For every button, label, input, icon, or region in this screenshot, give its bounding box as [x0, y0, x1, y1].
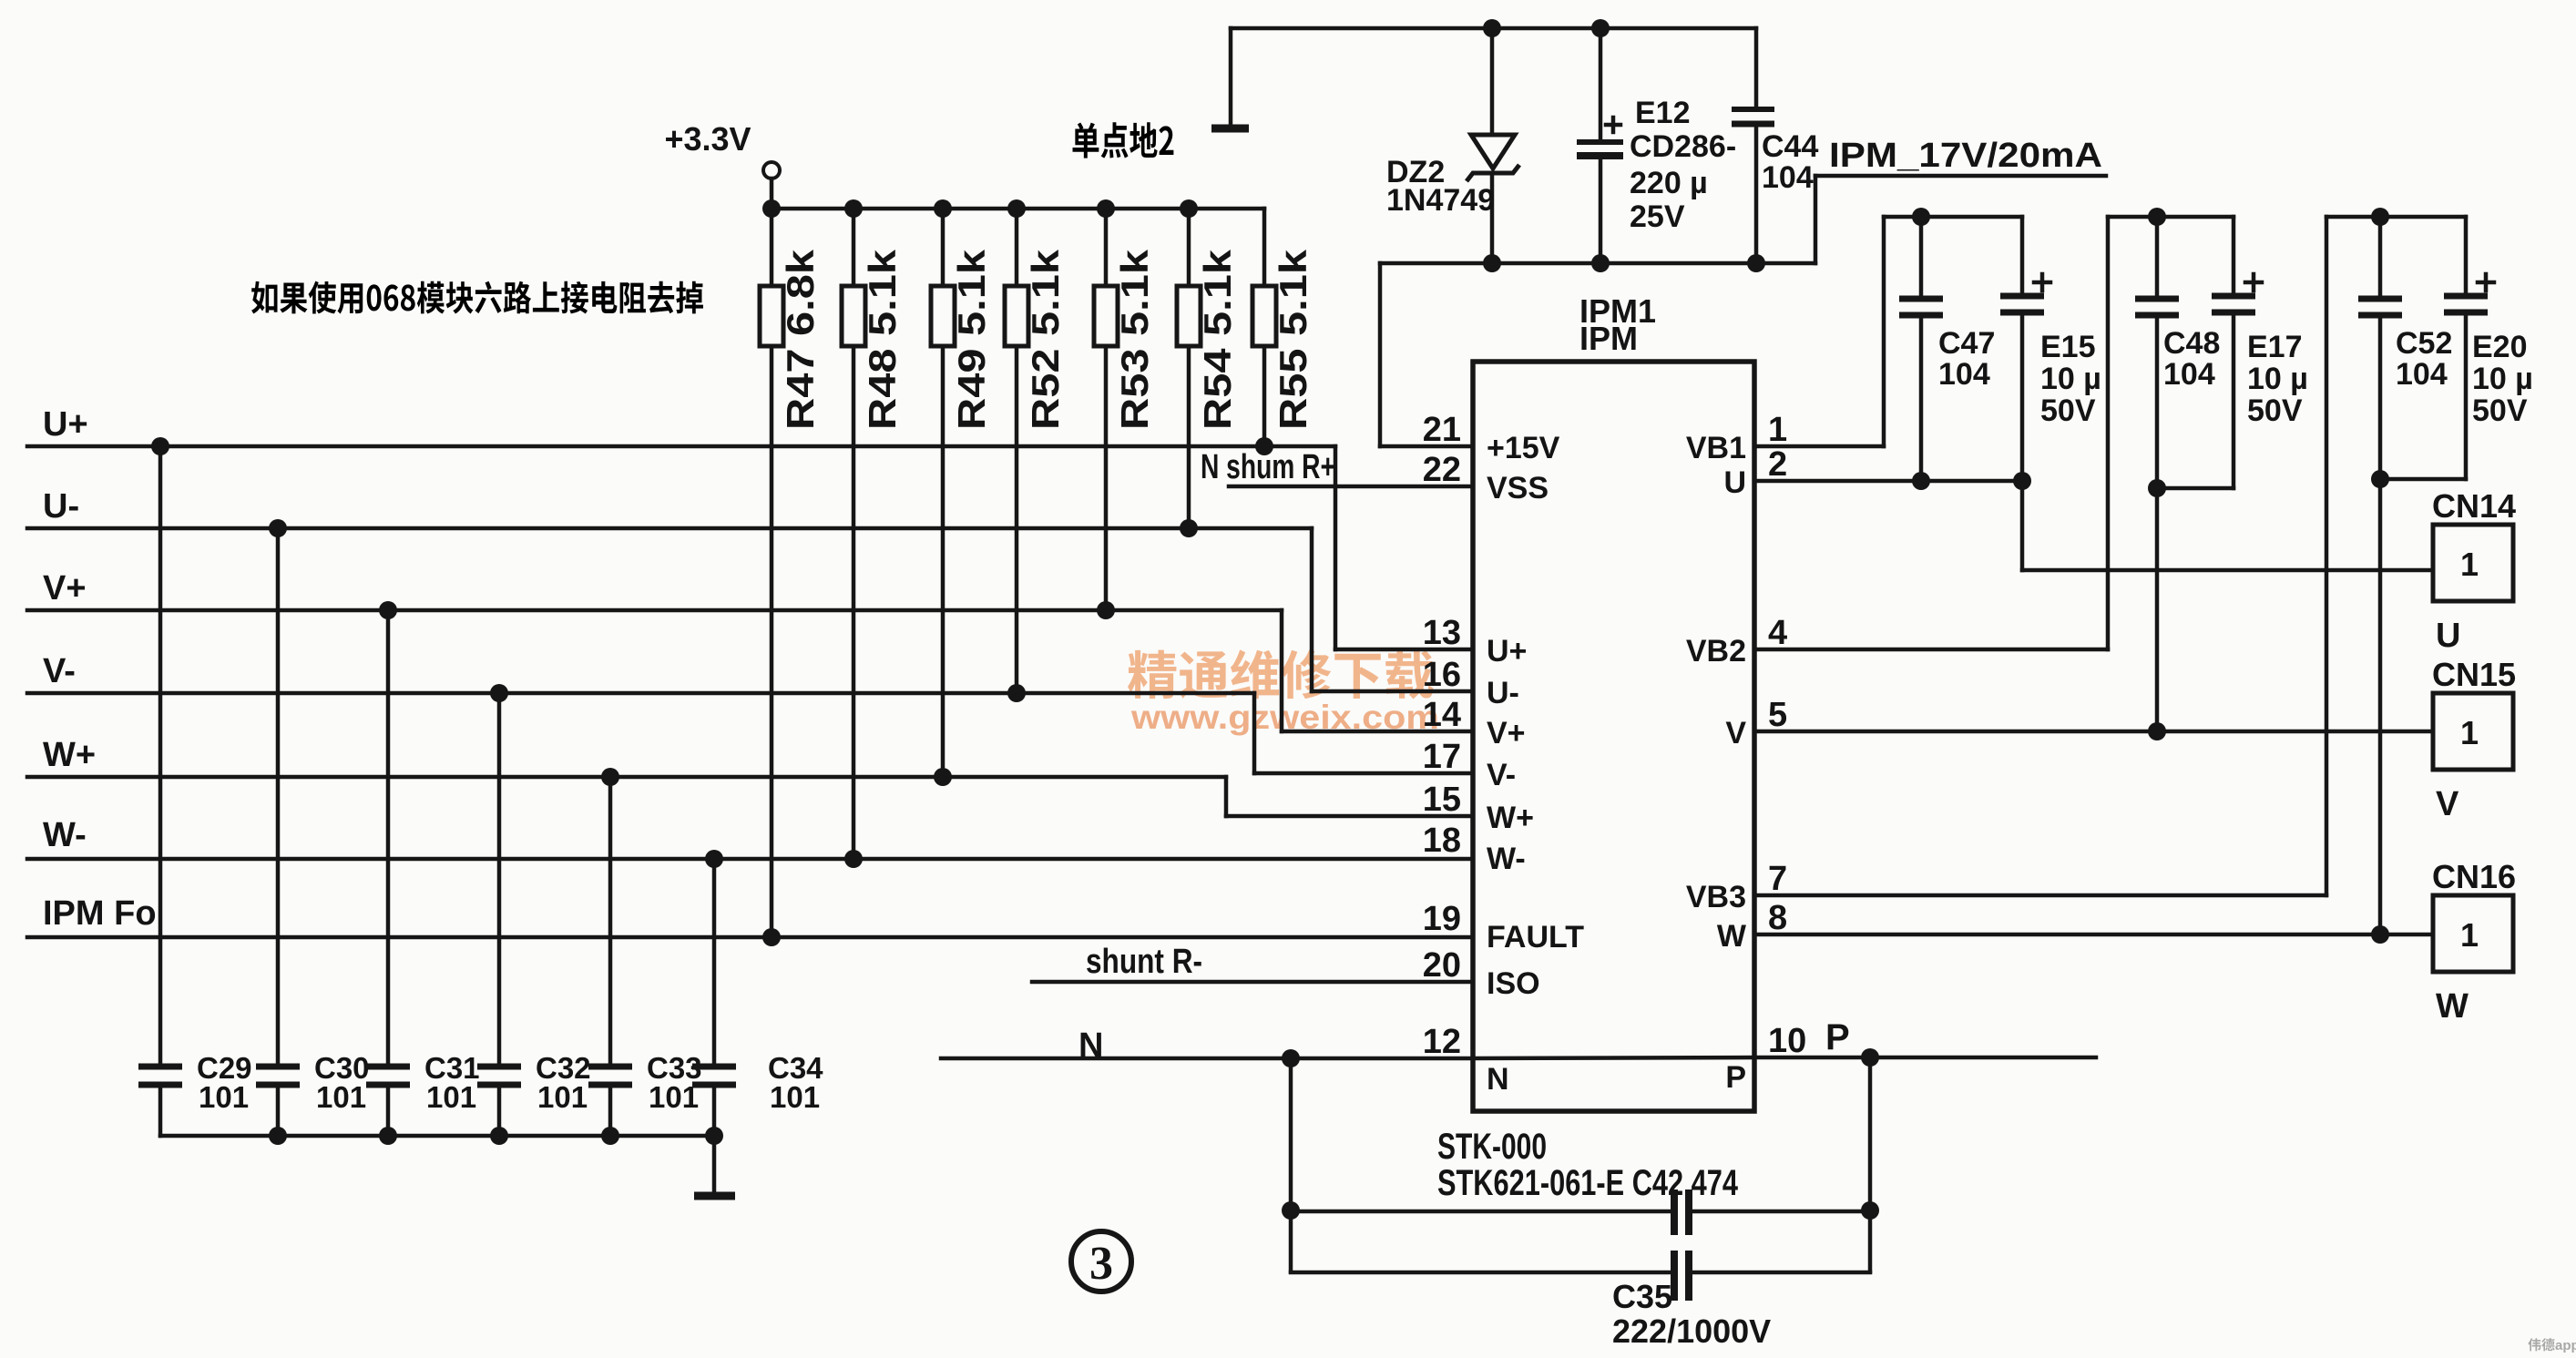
capacitor E12 CD286-220u 25V — [1577, 19, 1736, 272]
svg-text:+15V: +15V — [1487, 431, 1560, 465]
svg-text:IPM_17V/20mA: IPM_17V/20mA — [1829, 137, 2102, 175]
pin 15 W+ — [1423, 781, 1534, 835]
resistor R49 5.1k — [931, 199, 993, 786]
svg-text:U+: U+ — [1487, 634, 1527, 669]
pin 4 VB2 — [1686, 614, 1787, 669]
svg-text:CN15: CN15 — [2432, 656, 2516, 693]
svg-text:25V: 25V — [1630, 199, 1685, 234]
svg-text:CD286-: CD286- — [1630, 129, 1736, 164]
svg-text:W+: W+ — [1487, 801, 1534, 835]
wire V- signal line — [27, 693, 1473, 773]
svg-text:VB2: VB2 — [1686, 634, 1746, 669]
svg-text:P: P — [1725, 1060, 1746, 1095]
wire top rail — [1231, 26, 1756, 31]
pin 20 ISO — [1423, 946, 1540, 1001]
capacitor E20 10u 50V — [2444, 217, 2533, 479]
pin 17 V- — [1423, 738, 1516, 792]
svg-text:W-: W- — [1487, 842, 1526, 876]
svg-text:222/1000V: 222/1000V — [1612, 1312, 1771, 1350]
svg-text:CN14: CN14 — [2432, 487, 2516, 525]
svg-text:U-: U- — [43, 487, 79, 526]
svg-text:1: 1 — [2460, 714, 2479, 751]
pin 19 FAULT — [1423, 900, 1585, 955]
svg-text:101: 101 — [316, 1080, 366, 1114]
svg-text:13: 13 — [1423, 614, 1461, 652]
svg-text:E17: E17 — [2247, 330, 2303, 364]
connector CN14 (U) — [2432, 487, 2516, 655]
wire +15V feed to pin 21 — [1380, 263, 1473, 446]
svg-text:8: 8 — [1768, 899, 1787, 937]
svg-text:104: 104 — [2396, 357, 2448, 392]
svg-text:C44: C44 — [1762, 129, 1818, 164]
wire C34 ground stem — [712, 1136, 717, 1194]
resistor R54 5.1k — [1177, 199, 1239, 537]
resistor R55 5.1k — [1252, 209, 1314, 455]
svg-text:101: 101 — [199, 1080, 249, 1114]
wire U- signal line — [27, 528, 1473, 691]
svg-text:IPM Fo: IPM Fo — [43, 894, 157, 933]
pin 13 U+ — [1423, 614, 1528, 669]
svg-text:50V: 50V — [2040, 393, 2096, 428]
wire V pin5 to CN15 — [1754, 730, 2433, 734]
svg-text:104: 104 — [2163, 357, 2215, 392]
svg-text:V+: V+ — [43, 569, 87, 608]
svg-text:V-: V- — [1487, 758, 1516, 792]
svg-text:101: 101 — [426, 1080, 476, 1114]
svg-text:R48 5.1k: R48 5.1k — [861, 249, 904, 430]
pin 18 W- — [1423, 822, 1526, 876]
svg-text:E12: E12 — [1635, 96, 1691, 130]
op-amp/IC IPM1 STK621-061-E body — [1473, 362, 1754, 1111]
svg-text:17: 17 — [1423, 738, 1461, 776]
svg-text:shunt R-: shunt R- — [1086, 943, 1202, 981]
capacitor C29 — [138, 437, 252, 1136]
svg-text:20: 20 — [1423, 946, 1461, 985]
svg-text:E20: E20 — [2472, 330, 2528, 364]
wire W- signal line — [27, 857, 1473, 862]
wire C42/C35 right branch — [1868, 1057, 1873, 1271]
capacitor C31 — [366, 601, 480, 1136]
resistor R47 6.8k — [760, 199, 822, 946]
svg-text:R47 6.8k: R47 6.8k — [779, 249, 822, 430]
svg-text:FAULT: FAULT — [1487, 920, 1584, 955]
wire W+ signal line — [27, 777, 1473, 816]
capacitor C47 104 — [1899, 217, 1995, 481]
pin 8 W — [1717, 899, 1787, 954]
svg-text:14: 14 — [1423, 696, 1461, 734]
capacitor C52 104 — [2358, 217, 2452, 934]
svg-text:app: app — [2555, 1338, 2576, 1353]
svg-text:R52 5.1k: R52 5.1k — [1024, 249, 1067, 430]
svg-text:22: 22 — [1423, 451, 1461, 489]
svg-text:10 µ: 10 µ — [2472, 362, 2533, 396]
svg-text:16: 16 — [1423, 656, 1461, 694]
pin 14 V+ — [1423, 696, 1526, 750]
pin 21 +15V — [1423, 411, 1560, 465]
svg-text:C52: C52 — [2396, 326, 2452, 361]
svg-text:W+: W+ — [43, 736, 96, 774]
wire N line to pin 12 — [941, 1057, 1473, 1061]
wire N-P interior line — [1473, 1057, 1754, 1058]
svg-text:10 µ: 10 µ — [2247, 362, 2308, 396]
svg-text:18: 18 — [1423, 822, 1461, 860]
capacitor C34 — [692, 850, 823, 1136]
svg-text:W: W — [1717, 919, 1747, 954]
svg-text:C47: C47 — [1938, 326, 1995, 361]
pin 5 V — [1725, 696, 1787, 750]
svg-text:U: U — [2436, 617, 2460, 655]
wire bootstrap rail 2 — [2108, 215, 2234, 220]
svg-text:5: 5 — [1768, 696, 1787, 734]
footer small text — [2528, 1338, 2554, 1351]
svg-text:N: N — [1487, 1062, 1509, 1097]
svg-text:R55 5.1k: R55 5.1k — [1272, 249, 1314, 430]
svg-text:R49 5.1k: R49 5.1k — [950, 249, 993, 430]
note chinese annotation — [251, 281, 703, 314]
resistor R53 5.1k — [1094, 199, 1156, 619]
ground symbol bottom — [694, 1192, 735, 1200]
ground symbol top (single point ground 2) — [1211, 28, 1249, 128]
svg-text:10: 10 — [1768, 1022, 1806, 1060]
svg-text:C48: C48 — [2163, 326, 2220, 361]
svg-text:CN16: CN16 — [2432, 858, 2516, 895]
svg-text:U: U — [1723, 465, 1746, 500]
svg-text:STK621-061-E C42 474: STK621-061-E C42 474 — [1437, 1163, 1739, 1203]
capacitor C44 104 — [1732, 28, 1818, 272]
pin 2 U — [1723, 445, 1787, 500]
watermark text — [1128, 649, 1439, 736]
capacitor C32 — [477, 684, 591, 1136]
connector CN16 (W) — [2432, 858, 2516, 1026]
svg-text:C35: C35 — [1612, 1278, 1672, 1315]
svg-text:V+: V+ — [1487, 716, 1526, 750]
svg-text:R54 5.1k: R54 5.1k — [1196, 249, 1239, 430]
svg-text:2: 2 — [1768, 445, 1787, 484]
svg-text:1: 1 — [2460, 546, 2479, 583]
svg-text:IPM: IPM — [1579, 320, 1638, 357]
svg-text:101: 101 — [649, 1080, 699, 1114]
pin 16 U- — [1423, 656, 1519, 710]
svg-text:220 µ: 220 µ — [1630, 166, 1708, 200]
wire bottom ground bus — [160, 1134, 714, 1138]
svg-text:N shum R+: N shum R+ — [1201, 448, 1335, 486]
power +3.3V terminal — [664, 120, 780, 209]
svg-text:1N4749: 1N4749 — [1386, 183, 1495, 218]
capacitor C42 474 — [1291, 1190, 1870, 1235]
svg-text:21: 21 — [1423, 411, 1461, 449]
wire +3.3V bus — [772, 207, 1264, 211]
svg-text:V: V — [2436, 785, 2459, 823]
sheet number 3 — [1071, 1231, 1131, 1292]
svg-text:1: 1 — [2460, 916, 2479, 954]
pin 22 VSS — [1423, 451, 1549, 505]
svg-text:VB1: VB1 — [1686, 431, 1746, 465]
node label 单点地2 — [1073, 122, 1174, 158]
svg-text:U-: U- — [1487, 676, 1519, 710]
svg-text:7: 7 — [1768, 860, 1787, 898]
zener diode DZ2 1N4749 — [1386, 19, 1519, 272]
wire V+ signal line — [27, 610, 1473, 731]
svg-text:+3.3V: +3.3V — [664, 120, 751, 158]
svg-text:15: 15 — [1423, 781, 1461, 819]
wire C52/E20 bottom rail — [2380, 477, 2466, 482]
wire U pin2 to CN14 — [1754, 481, 2433, 570]
capacitor E17 10u 50V — [2212, 217, 2308, 488]
svg-text:W: W — [2436, 987, 2469, 1026]
capacitor C48 104 — [2135, 217, 2220, 731]
svg-text:VB3: VB3 — [1686, 880, 1746, 914]
capacitor C33 — [588, 768, 702, 1136]
pin 7 VB3 — [1686, 860, 1787, 914]
svg-text:50V: 50V — [2472, 393, 2528, 428]
svg-text:STK-000: STK-000 — [1437, 1127, 1547, 1167]
pin 10 P — [1725, 1022, 1806, 1095]
wire bootstrap rail 1 — [1884, 215, 2022, 220]
wire net IPM_17V/20mA stub — [1756, 176, 2106, 263]
wire VB1 pin1 — [1754, 217, 1884, 446]
svg-text:VSS: VSS — [1487, 471, 1549, 505]
capacitor C35 222/1000V — [1291, 1251, 1870, 1350]
wire bootstrap rail 3 — [2326, 215, 2466, 220]
svg-text:104: 104 — [1762, 160, 1814, 195]
wire VB2 pin4 — [1754, 217, 2108, 649]
wire C42/C35 left branch — [1289, 1058, 1293, 1271]
resistor R52 5.1k — [1005, 199, 1067, 702]
svg-text:104: 104 — [1938, 357, 1990, 392]
wire W pin8 to CN16 — [1754, 933, 2433, 937]
wire P line from pin 10 — [1754, 1056, 2096, 1060]
svg-text:N: N — [1078, 1026, 1103, 1065]
svg-text:10 µ: 10 µ — [2040, 362, 2101, 396]
wire 15V bottom rail — [1380, 261, 1756, 266]
wire U+ signal line — [27, 446, 1473, 649]
pin 1 VB1 — [1686, 411, 1787, 465]
svg-text:V: V — [1725, 716, 1746, 750]
svg-text:R53 5.1k: R53 5.1k — [1113, 249, 1156, 430]
svg-text:P: P — [1825, 1017, 1850, 1057]
svg-text:V-: V- — [43, 652, 76, 690]
resistor R48 5.1k — [842, 199, 904, 868]
wire C48/E17 bottom rail — [2157, 486, 2234, 491]
svg-text:4: 4 — [1768, 614, 1787, 652]
svg-text:1: 1 — [1768, 411, 1787, 449]
wire net N shum R+ stub to pin 22 — [1229, 485, 1473, 489]
svg-text:ISO: ISO — [1487, 966, 1540, 1001]
wire VB3 pin7 — [1754, 217, 2326, 895]
capacitor C30 — [256, 519, 370, 1136]
svg-text:E15: E15 — [2040, 330, 2096, 364]
svg-text:U+: U+ — [43, 405, 88, 444]
svg-text:W-: W- — [43, 816, 87, 854]
wire net shunt R- stub to pin 20 — [1032, 980, 1473, 985]
svg-text:101: 101 — [770, 1080, 820, 1114]
svg-text:101: 101 — [537, 1080, 588, 1114]
svg-text:19: 19 — [1423, 900, 1461, 938]
pin 12 N — [1423, 1023, 1509, 1097]
wire IPM Fo signal line — [27, 935, 1473, 940]
connector CN15 (V) — [2432, 656, 2516, 823]
svg-text:3: 3 — [1089, 1238, 1113, 1290]
svg-text:12: 12 — [1423, 1023, 1461, 1061]
svg-text:50V: 50V — [2247, 393, 2303, 428]
capacitor E15 10u 50V — [2000, 217, 2101, 481]
